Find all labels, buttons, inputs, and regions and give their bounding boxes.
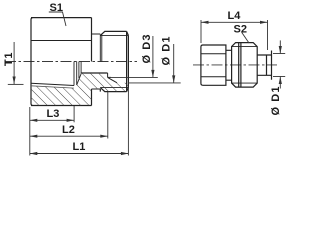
- body hex outline (right view): [201, 45, 226, 85]
- svg-text:S2: S2: [234, 24, 247, 36]
- body hex facet line lower: [201, 76, 226, 78]
- standpipe stub end face: [127, 35, 129, 87]
- dimension L2 line: [30, 135, 108, 137]
- standpipe stub left face edges: [100, 35, 102, 62]
- dimension L3 line: [30, 119, 74, 121]
- through bore line (section): [81, 72, 108, 74]
- body hex facet line upper: [201, 53, 226, 55]
- dimension D1 arrowhead (left view): [172, 75, 175, 83]
- tube stub (right view): [257, 51, 271, 80]
- dimension D3 arrowhead: [151, 70, 154, 78]
- dimension D1 line (left view): [173, 44, 175, 83]
- dimension L1 line: [30, 153, 129, 155]
- centerline of assembled fitting (right view): [193, 64, 277, 66]
- dimension L4 line: [201, 21, 268, 23]
- section hatching: [31, 73, 128, 106]
- dimension L3 arrowheads: [30, 119, 74, 122]
- dimension T1 arrowhead: [13, 77, 16, 85]
- svg-text:L3: L3: [47, 108, 60, 120]
- centerline of sectioned body (left view): [5, 61, 137, 63]
- dimension D1 extension lines (right view): [273, 54, 285, 77]
- female thread minor line (section): [31, 83, 74, 85]
- dimension L4 extension line right: [267, 20, 269, 50]
- neck between body and nut: [226, 50, 232, 80]
- extension line at counterbore step: [107, 92, 109, 139]
- ferrule edge line: [266, 55, 268, 75]
- female thread major line (section): [31, 86, 74, 88]
- relief groove top line: [92, 33, 101, 35]
- nut corner edge lines: [239, 43, 241, 88]
- standpipe stub outline with corner chamfers: [100, 31, 128, 91]
- hex body S1 outline (left view): [31, 18, 92, 106]
- dimension L1 arrowheads: [30, 152, 129, 155]
- neck step edge (section): [99, 89, 101, 92]
- dimension T1 line: [13, 42, 15, 84]
- dimension D3 line: [152, 36, 154, 77]
- relief groove bottom line (section): [92, 88, 101, 90]
- dimension D1 extension line (left view): [128, 82, 180, 84]
- extension line at left face: [29, 107, 31, 156]
- leader line for label S1: [49, 12, 66, 26]
- extension line at stub end: [127, 88, 129, 156]
- dimension D3 extension line: [111, 76, 158, 78]
- stub chamfer line top: [100, 34, 128, 36]
- nut chamfer line bottom: [232, 82, 258, 84]
- dimension D1 lines (right view): [279, 40, 281, 88]
- dimension L4 arrowheads: [201, 21, 268, 24]
- svg-text:L4: L4: [228, 10, 242, 22]
- stub chamfer line bottom: [100, 87, 128, 89]
- hex facet line: [31, 40, 92, 42]
- svg-text:Ø D1: Ø D1: [161, 35, 173, 65]
- nut chamfer line top: [232, 46, 258, 48]
- dimension L4 extension line left: [200, 20, 202, 43]
- svg-text:L1: L1: [73, 141, 86, 153]
- thread runout edges: [74, 62, 81, 86]
- dimension D1 arrowheads (right view): [279, 46, 282, 84]
- svg-text:Ø D1: Ø D1: [270, 85, 282, 115]
- cavity mouth flare (section): [108, 77, 117, 82]
- dimension T1 extension line: [8, 83, 24, 85]
- dimension L2 arrowheads: [30, 135, 108, 138]
- svg-text:Ø D3: Ø D3: [141, 33, 153, 63]
- svg-text:S1: S1: [50, 2, 63, 14]
- extension line at thread end: [73, 106, 75, 122]
- svg-text:T1: T1: [3, 52, 15, 66]
- nut S2 outline: [232, 43, 258, 88]
- thread-to-bore cone: [77, 74, 81, 85]
- svg-text:L2: L2: [62, 124, 75, 136]
- leader line for label S2: [242, 33, 249, 44]
- counterbore step (section): [108, 73, 111, 77]
